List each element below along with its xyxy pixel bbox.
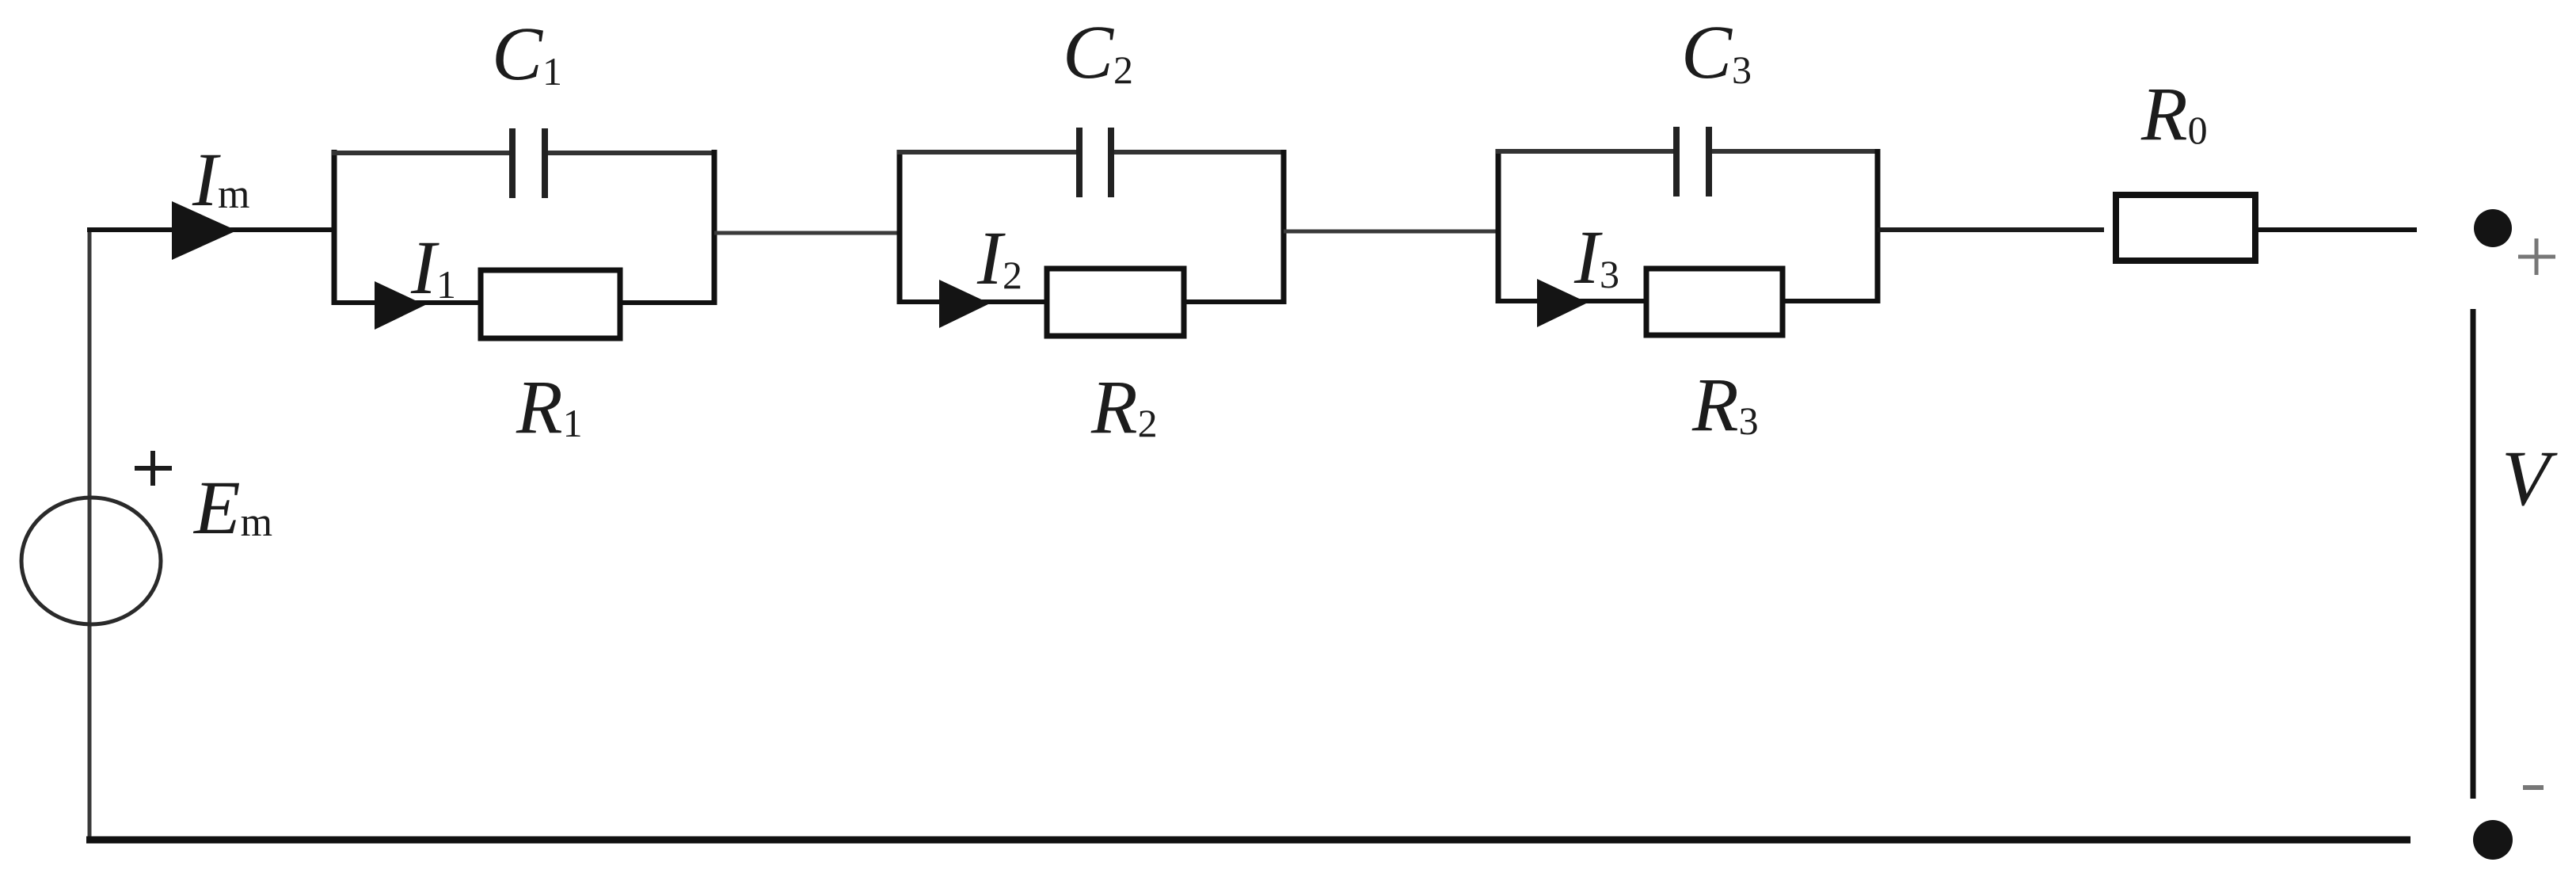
arrow I1: [375, 281, 425, 330]
block2 RC pair: [897, 128, 1286, 336]
wire R0 to terminal: [2255, 227, 2417, 232]
arrow I2: [939, 280, 990, 328]
minus sign at bottom terminal: [2523, 785, 2544, 790]
svg-text:V: V: [2502, 434, 2558, 522]
capacitor C1: [509, 128, 516, 198]
wire block1 right edge: [712, 150, 717, 305]
resistor R3: [1646, 269, 1783, 335]
wire block1 bottom branch: [334, 300, 483, 305]
wire block2 to block3: [1284, 230, 1501, 234]
block1 RC pair: [332, 128, 717, 338]
wire block2 right edge: [1281, 150, 1287, 304]
wire block2 left edge: [897, 150, 903, 304]
resistor R0: [2116, 195, 2255, 261]
plus sign of Em: [135, 451, 172, 486]
node terminal top dot: [2474, 209, 2512, 247]
wire block3 right edge: [1875, 149, 1881, 303]
plus sign at top terminal: [2518, 238, 2555, 275]
wire bottom: [86, 837, 2410, 844]
wire block3 top edge: [1496, 149, 1676, 154]
node terminal bottom dot: [2473, 820, 2513, 860]
wire block1 top edge: [332, 151, 512, 155]
wire block2 top edge: [897, 150, 1079, 154]
resistor R1: [481, 270, 620, 338]
arrow I3: [1537, 279, 1588, 327]
wire block2 bottom branch: [900, 299, 1049, 304]
wire block1 left edge: [332, 150, 337, 305]
capacitor C3: [1673, 127, 1680, 196]
wire V measurement line: [2471, 309, 2476, 799]
capacitor C2: [1076, 128, 1083, 197]
block3 RC pair: [1496, 127, 1880, 335]
wire block3 bottom branch: [1498, 299, 1649, 303]
wire block3 to R0: [1878, 227, 2104, 232]
wire left vertical: [88, 228, 92, 840]
wire block1 to block2: [714, 231, 902, 235]
wire main rail to block1: [87, 227, 336, 232]
wire block3 left edge: [1496, 149, 1501, 303]
voltage source Em: [21, 498, 161, 624]
arrow Im: [172, 201, 237, 260]
resistor R2: [1047, 269, 1184, 336]
